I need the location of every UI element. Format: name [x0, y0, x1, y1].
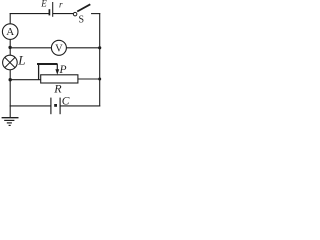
battery long thin plate	[52, 2, 54, 17]
switch contact circle	[73, 12, 77, 16]
switch blade	[77, 4, 90, 11]
wire voltmeter branch	[10, 47, 100, 49]
svg-text:P: P	[59, 64, 67, 76]
svg-text:V: V	[55, 43, 63, 54]
lamp L	[3, 52, 26, 70]
rheostat R with slider P	[37, 64, 78, 95]
node: left voltmeter junction	[8, 46, 11, 49]
ground	[2, 118, 19, 126]
svg-text:S: S	[79, 15, 85, 26]
wire bottom right (to capacitor)	[60, 105, 100, 107]
wiper vertical left	[38, 64, 40, 80]
wire rheostat branch left	[10, 79, 41, 81]
wiper arrow shaft	[56, 64, 58, 70]
battery E,r	[40, 0, 63, 17]
node: right rheostat junction	[98, 78, 101, 81]
svg-text:r: r	[59, 0, 63, 10]
node: left rheostat junction	[9, 78, 12, 81]
node: right voltmeter junction	[98, 46, 101, 49]
wire top right (switch to corner)	[92, 13, 100, 15]
wire top middle (battery to switch)	[53, 13, 73, 15]
svg-text:E: E	[40, 0, 47, 9]
svg-text:R: R	[53, 81, 62, 95]
wire top left	[10, 13, 48, 15]
wire rheostat branch right	[78, 78, 100, 80]
capacitor C	[51, 96, 70, 115]
svg-text:A: A	[6, 26, 14, 38]
ammeter A	[2, 24, 18, 40]
resistor R box	[41, 75, 78, 83]
wire bottom left (capacitor to left wire)	[10, 105, 51, 107]
wire right side	[99, 14, 101, 106]
wire left side	[9, 14, 11, 118]
voltmeter V	[51, 40, 66, 55]
switch S	[73, 4, 90, 25]
capacitor right plate	[59, 98, 61, 115]
svg-text:C: C	[62, 96, 70, 108]
capacitor left plate	[50, 98, 52, 115]
svg-text:L: L	[17, 52, 25, 67]
wiper arrowhead	[55, 69, 59, 75]
battery short thick plate	[48, 9, 50, 15]
wiper top bar	[37, 63, 58, 65]
charged particle dot	[54, 104, 57, 107]
